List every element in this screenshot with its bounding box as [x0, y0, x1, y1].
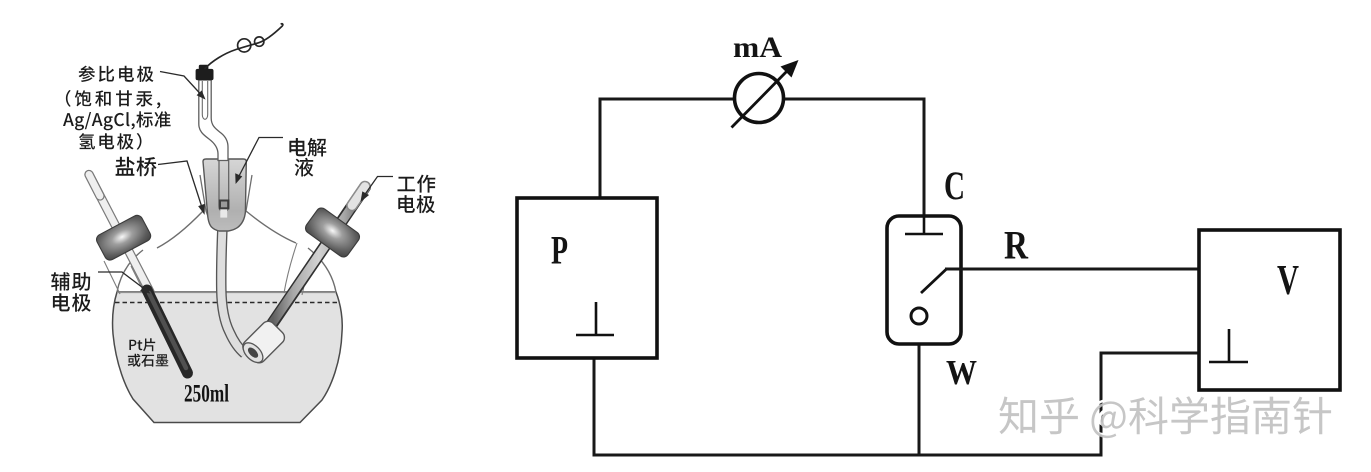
ammeter mA [732, 60, 799, 128]
electrochemical cell box [887, 216, 961, 344]
svg-text:mA: mA [733, 31, 782, 64]
right stopper [303, 206, 361, 259]
label: working electrode 工作电极 [398, 175, 436, 193]
potentiostat box P [517, 198, 657, 358]
reference electrode glass tube upper part with S-bend [199, 80, 228, 161]
switch arm [921, 269, 947, 294]
wire: P bottom, bottom rail, riser to V [594, 353, 1199, 455]
label: Pt plate Pt片/或石墨 [129, 338, 155, 351]
watermark 知乎 @科学指南针 [997, 394, 1331, 438]
center neck glass walls [200, 175, 252, 226]
coiled lead wire [205, 24, 283, 69]
leader line + arrow: 辅助电极 [98, 272, 149, 293]
svg-text:R: R [1004, 223, 1029, 268]
label: reference electrode 参比电极 [79, 66, 154, 82]
funnel (salt bridge vessel) [203, 159, 246, 231]
frit / junction square on salt bridge [219, 200, 230, 210]
left neck glass walls [104, 261, 146, 296]
nut / holder at working electrode tip [239, 318, 288, 367]
switch pole circle [911, 308, 927, 324]
leader line + arrow: 工作电极 [361, 177, 393, 201]
svg-text:W: W [946, 353, 977, 392]
working rod tip above stopper [352, 187, 365, 206]
liquid surface line [117, 292, 336, 294]
Pt plate (dark electrode) [147, 290, 188, 373]
svg-text:C: C [944, 163, 965, 208]
flask shoulder outlines [117, 211, 336, 292]
working electrode rod [272, 187, 365, 324]
wire: ammeter to cell C terminal [783, 99, 924, 217]
reference electrode cap [196, 65, 214, 81]
C electrode lead inside cell [905, 216, 943, 234]
leader line + arrow: 电解液 [236, 138, 283, 183]
right neck glass walls [284, 243, 314, 295]
leader line + arrow: 参比电极 [160, 72, 204, 99]
ground symbol in V [1209, 329, 1248, 362]
reference electrode tube inside funnel [219, 159, 229, 218]
left stopper [95, 213, 153, 262]
svg-text:P: P [551, 228, 568, 273]
flask body with electrolyte liquid [112, 292, 342, 423]
svg-text:V: V [1277, 257, 1299, 304]
wire: P top to ammeter [600, 99, 735, 199]
leader line + arrow: 盐桥 [158, 161, 204, 213]
voltmeter box V [1199, 230, 1340, 390]
auxiliary rod tip above stopper [89, 175, 100, 197]
wire: W lead down from cell to bottom rail [918, 325, 921, 455]
ground symbol in P [576, 302, 614, 335]
label: electrolyte 电解液 [289, 138, 326, 157]
label: auxiliary electrode 辅助电极 [51, 272, 90, 291]
svg-text:250ml: 250ml [184, 381, 229, 408]
wire: R lead from switch to V box [945, 268, 1199, 271]
liquid surface dashed line [115, 302, 337, 304]
label: salt bridge 盐桥 [116, 157, 157, 177]
auxiliary electrode glass tube [89, 175, 150, 293]
salt bridge tube below funnel [221, 226, 244, 354]
